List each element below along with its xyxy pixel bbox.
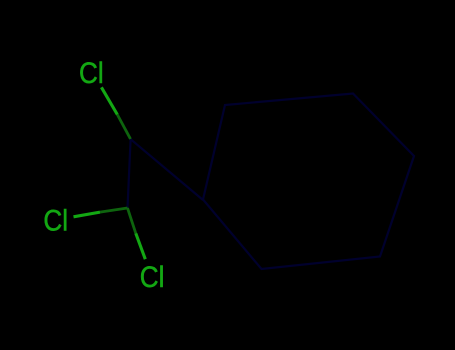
wire: bond C1-Cl(bottom) green half xyxy=(136,233,146,259)
wire: bond C1-C2 navy xyxy=(128,139,131,208)
wire: bond C2-ring navy xyxy=(131,139,203,200)
wire: bond C1-Cl(bottom) navy half xyxy=(128,208,136,233)
wire: bond C2-Cl(top) green half xyxy=(101,87,117,114)
svg-text:Cl: Cl xyxy=(43,204,68,237)
wire: bond C1-Cl(left) green half xyxy=(74,212,101,217)
wire: bond C2-Cl(top) navy half xyxy=(117,115,130,140)
wire: bond C1-Cl(left) navy half xyxy=(100,208,128,212)
ring: cyclohexane hexagon navy xyxy=(203,94,414,270)
svg-text:Cl: Cl xyxy=(79,57,104,90)
svg-text:Cl: Cl xyxy=(140,260,165,293)
